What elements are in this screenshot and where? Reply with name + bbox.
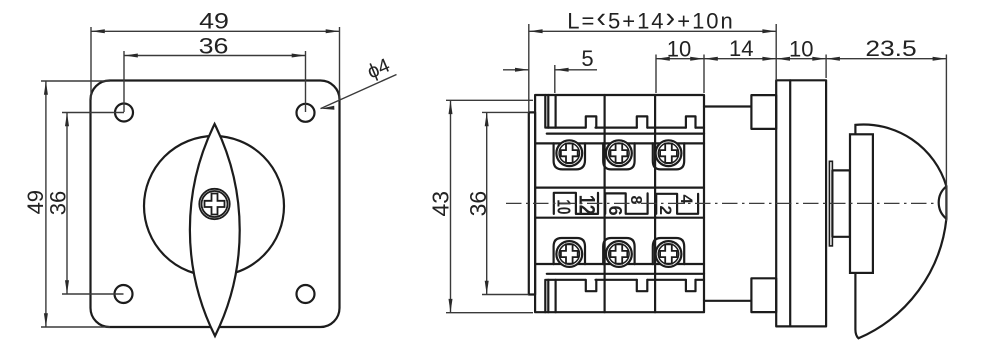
knob circle bbox=[144, 136, 284, 276]
svg-text:36: 36 bbox=[465, 191, 491, 217]
module top interior line 2 bbox=[547, 133, 704, 135]
hole bottom-left bbox=[115, 285, 133, 303]
module bottom interior line bbox=[547, 279, 705, 281]
meander module 1 bbox=[554, 193, 598, 214]
dim 36 right-view extensions bbox=[482, 112, 529, 294]
dim 10a line bbox=[656, 58, 704, 60]
dim L line bbox=[529, 30, 776, 32]
svg-text:14: 14 bbox=[729, 36, 753, 61]
dim 36 left extension lines bbox=[62, 113, 124, 295]
shaft hub bbox=[832, 170, 850, 236]
dim 36 top extension lines bbox=[124, 51, 306, 112]
centerline bbox=[506, 202, 938, 204]
svg-text:23.5: 23.5 bbox=[865, 37, 916, 61]
dim 36 top line bbox=[124, 55, 306, 57]
rear lug top bbox=[751, 95, 776, 129]
dim 49 top line bbox=[91, 30, 340, 32]
knob disc profile bbox=[855, 125, 946, 339]
front bracket lines bbox=[545, 95, 555, 312]
dim 43 line bbox=[450, 100, 452, 312]
dim 5 outside arrow left bbox=[503, 69, 529, 71]
dim 5 line with outside arrow bbox=[555, 69, 597, 71]
handle lens bbox=[190, 124, 240, 336]
screw rail line top bbox=[535, 142, 704, 144]
knob tip lens bbox=[939, 186, 947, 219]
screw 3 bottom bbox=[656, 241, 682, 267]
screw 1 bottom bbox=[556, 241, 582, 267]
module divider 2 bbox=[654, 95, 656, 312]
module divider 1 bbox=[603, 95, 605, 312]
screw 1 top bbox=[556, 140, 582, 166]
handle flange plate bbox=[776, 80, 826, 326]
module top notches bbox=[586, 116, 696, 127]
svg-text:6: 6 bbox=[605, 206, 625, 216]
rear lug bottom bbox=[751, 278, 776, 312]
svg-text:36: 36 bbox=[199, 35, 229, 59]
terminal clamp 1 bottom bbox=[554, 238, 585, 264]
front plate bbox=[91, 81, 340, 328]
dim L extension right bbox=[775, 24, 777, 80]
svg-text:43: 43 bbox=[428, 191, 454, 217]
dim 49 left line bbox=[45, 81, 47, 327]
hole bottom-right bbox=[297, 285, 315, 303]
screw 2 top bbox=[606, 140, 632, 166]
module bottom notches bbox=[586, 280, 696, 291]
screw 2 bottom bbox=[606, 241, 632, 267]
svg-text:10: 10 bbox=[554, 199, 574, 214]
dim 36 right-view line bbox=[486, 112, 488, 294]
dim 23.5 line bbox=[826, 58, 946, 60]
terminal clamp 2 bottom bbox=[603, 238, 634, 264]
screw center bbox=[199, 189, 229, 219]
svg-text:5: 5 bbox=[581, 46, 593, 71]
dim 43 extensions bbox=[446, 100, 533, 312]
hole top-right bbox=[297, 104, 315, 122]
svg-text:36: 36 bbox=[45, 191, 70, 215]
screw rail line bottom bbox=[535, 263, 704, 265]
dim 14 line bbox=[704, 58, 776, 60]
svg-text:10: 10 bbox=[667, 37, 691, 62]
module bottom interior line 2 bbox=[547, 273, 704, 275]
chain dim extensions bbox=[656, 55, 946, 222]
svg-text:49: 49 bbox=[23, 190, 48, 214]
svg-text:49: 49 bbox=[199, 10, 229, 34]
dim 36 left line bbox=[66, 113, 68, 295]
module top interior line bbox=[547, 126, 705, 128]
meander module 2 bbox=[605, 193, 647, 213]
svg-text:12: 12 bbox=[575, 195, 600, 215]
hole top-left bbox=[115, 104, 133, 122]
switch body outline bbox=[535, 95, 704, 312]
knob back plate bbox=[850, 134, 873, 273]
dim 49 left extension lines bbox=[41, 81, 110, 327]
dim L extension left bbox=[528, 24, 530, 112]
dim 10b line bbox=[776, 58, 826, 60]
meander module 3 bbox=[656, 194, 698, 214]
terminal clamp 2 top bbox=[603, 143, 634, 169]
screw 3 top bbox=[656, 140, 682, 166]
svg-text:10: 10 bbox=[789, 37, 813, 62]
terminal band lines bbox=[535, 188, 704, 218]
terminal clamp 3 top bbox=[653, 143, 684, 169]
washer strip bbox=[829, 161, 832, 246]
terminal clamp 3 bottom bbox=[653, 238, 684, 264]
rear section outline bbox=[704, 107, 751, 301]
terminal clamp 1 top bbox=[554, 143, 585, 169]
flange inner line bbox=[789, 80, 791, 326]
phi4 leader bbox=[321, 75, 397, 109]
dim 5 extension right bbox=[554, 65, 556, 93]
svg-text:2: 2 bbox=[656, 205, 675, 214]
side mounting plate strip bbox=[529, 112, 535, 294]
dim 49 top extension lines bbox=[91, 27, 340, 100]
